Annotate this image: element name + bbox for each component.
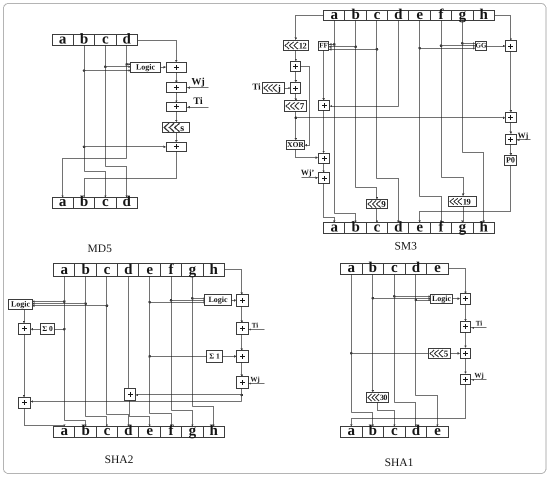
svg-text:e: e [416,7,423,23]
wire SM3 d into middle adder1 [331,106,399,108]
svg-text:b: b [81,262,89,278]
wire SM3 P0 output to new e [420,166,511,223]
svg-text:e: e [416,219,423,235]
wire SHA2 b vertical [85,277,87,417]
logic box SM3 FF(a,b,c) [319,42,329,51]
svg-text:e: e [146,262,153,278]
svg-text:g: g [459,219,467,235]
wire SHA2 e into right Logic [150,302,205,304]
wire SHA1 Ti input [471,327,487,329]
svg-text:Wj: Wj [250,375,259,383]
rotate box SM3 <<<j [263,83,285,94]
adder SHA2 left + (Maj+S0) [19,324,31,335]
wire MD5 c to new d [106,167,127,197]
svg-text:a: a [348,423,356,439]
wire SHA1 <<<5 to adder3 [451,353,460,355]
svg-text:b: b [351,219,359,235]
svg-text:GG: GG [476,42,487,50]
svg-text:MD5: MD5 [88,243,113,255]
svg-text:12: 12 [299,40,307,50]
wire SM3 left adder2 to <<<7 [295,94,297,101]
wire SHA1 c vertical [394,275,396,403]
wire SM3 Wj' input to middle adder3 [302,177,318,179]
svg-text:Logic: Logic [136,63,156,72]
svg-text:h: h [210,262,219,278]
wire MD5 d to new a [63,159,127,197]
wire SM3 right adder1 to adder2 [510,52,512,112]
svg-text:e: e [434,260,441,276]
wire SM3 a vertical [334,21,336,214]
wire SHA2 Sigma0 output to left adder [32,329,41,331]
adder SHA1 +2 (+Ti) [461,322,471,333]
register SHA2 top (a-h) [54,262,225,278]
logic box SM3 GG(e,f,g) [476,42,487,51]
svg-text:P0: P0 [506,156,515,165]
wire MD5 a-feed: top register right edge to adder chain [138,41,177,62]
svg-text:SM3: SM3 [395,241,418,253]
svg-text:19: 19 [463,196,471,206]
wire SM3 c to new d [377,179,399,223]
wire SHA1 Logic to adder1 [453,298,460,300]
wire SHA2 h-feed: register right edge to right adder chain [225,270,242,295]
rotate box SM3 <<<9 [367,199,388,209]
wire SHA2 f to new g [172,411,193,427]
wire SM3 <<<9 to new c [376,209,378,223]
svg-text:Ti: Ti [252,321,259,329]
wire SM3 XOR output to middle adder2 [296,150,318,158]
wire SM3 e to new f [420,197,442,223]
adder SHA2 middle + (d+T1) [125,389,136,401]
adder SM3 middle +2 (+SS2) [319,154,330,164]
svg-text:c: c [374,219,381,235]
wire SM3 b into FF [329,46,356,48]
wire SHA2 left Logic to adder T2a [24,310,26,323]
wire MD5 b into adder4 [85,146,166,148]
svg-text:FF: FF [319,42,328,50]
adder SM3 left +1 (A12+E) [291,62,301,72]
wire SHA2 T1 branch to middle adder (d+T1) [137,394,242,396]
wire SM3 d vertical [398,21,400,107]
adder SM3 middle +3 (+Wj') [319,173,330,184]
register SHA1 top (a-e) [341,260,449,276]
svg-text:b: b [80,32,88,48]
wire SHA1 a into <<<5 [352,353,429,355]
rotate box SHA1 <<<30 [367,393,389,403]
wire SHA2 T1 down from adder4 [241,389,243,402]
wire SM3 c vertical [376,21,378,179]
logic box SHA1 F(b,c,d) [431,294,453,303]
wire SHA2 g vertical [192,277,194,407]
logic box SHA2 Maj(a,b,c) [9,300,33,310]
wire SHA1 Wj input [471,379,487,381]
svg-text:Wj: Wj [191,77,204,88]
wire SHA2 b into left Logic [33,303,86,305]
svg-text:d: d [394,219,403,235]
wire SM3 GG output to right adder1 [487,46,505,48]
wire MD5 c vertical [105,46,107,167]
svg-text:Wj: Wj [474,372,483,380]
wire SHA1 a to new b [352,413,373,427]
wire SHA1 <<<30 to new c [378,403,395,427]
svg-text:c: c [374,7,381,23]
wire SM3 A-feed: register left edge to <<<12 [296,16,324,40]
rotate box SM3 <<<7 [285,101,307,112]
wire SHA1 temp to new a [352,385,466,427]
wire SM3 <<<19 to new g [463,207,465,223]
svg-text:b: b [351,7,359,23]
wire SM3 <<<12 to left adder1 [295,51,297,61]
wire MD5 d vertical [126,46,128,159]
svg-text:h: h [480,7,489,23]
svg-text:d: d [123,32,132,48]
adder MD5 + (+Ti) [167,103,187,112]
svg-text:d: d [394,7,403,23]
wire SHA1 adder1 to adder2 [465,305,467,321]
adder SM3 left +2 (+Tj<<<j) [291,83,301,94]
wire SHA2 right adder3 to adder4 [241,363,243,377]
svg-text:h: h [480,219,489,235]
wire SHA2 a into Sigma0 [55,329,65,331]
rotate box SM3 <<<19 [449,196,477,206]
svg-text:a: a [61,423,69,439]
wire SHA2 c into left Logic [33,305,107,307]
wire SHA2 a into left Logic [33,301,65,303]
wire SHA1 b into <<<30 rotate [372,390,375,392]
wire SM3 f vertical [441,21,443,178]
wire MD5 adder3 to rotate [176,112,178,122]
wire SHA2 g to new h [193,407,214,427]
wire SHA1 d to new e [416,396,438,427]
svg-text:Logic: Logic [208,295,228,304]
svg-text:a: a [59,32,67,48]
svg-text:a: a [61,262,69,278]
svg-text:e: e [146,423,153,439]
svg-text:g: g [189,262,197,278]
svg-text:Wj: Wj [518,131,529,140]
svg-text:c: c [102,32,109,48]
wire MD5 rotate to adder4 [176,133,178,142]
svg-text:d: d [124,262,133,278]
wire SHA1 d vertical [415,275,417,396]
wire SM3 FF output to middle adder1 [323,51,325,100]
wire SHA2 c to new d [107,415,129,427]
wire MD5 c into Logic [106,66,131,68]
adder MD5 + (+Wj) [167,83,187,93]
svg-text:Logic: Logic [432,294,452,303]
svg-text:b: b [80,194,88,210]
svg-text:g: g [189,423,197,439]
wire SM3 a into FF [329,44,335,46]
svg-text:d: d [412,423,421,439]
svg-text:h: h [210,423,219,439]
svg-text:Wj’: Wj’ [301,168,315,177]
wire SHA1 b into Logic [373,298,431,300]
wire SM3 right adder3 to P0 [510,145,512,155]
adder SHA1 +3 (+a<<<5) [461,349,471,359]
svg-text:a: a [331,219,339,235]
register SHA1 bottom (a-e) [341,423,449,439]
wire SHA1 adder3 to adder4 [465,359,467,374]
adder SHA2 right +3 (+Sigma1) [237,351,249,363]
svg-text:Ti: Ti [476,320,483,328]
wire SHA2 b to new c [86,417,107,427]
sigma box SHA2 Sigma1 [207,351,223,363]
svg-text:Logic: Logic [11,300,31,309]
svg-text:Σ 1: Σ 1 [209,351,220,360]
adder SHA2 right +1 (h+Ch) [237,295,249,307]
wire SM3 right adder2 to adder3 [510,123,512,134]
wire SM3 Wj input [517,139,531,141]
wire SM3 c into FF [329,49,377,51]
wire SHA2 right Logic to adder 1 [232,300,236,302]
function box SM3 P0 [505,156,517,166]
adder SHA2 right +4 (+Wj) [237,377,249,389]
adder SHA2 left + (T1+T2) [19,398,31,409]
wire SM3 a to new b [335,214,356,223]
wire MD5 d into Logic [127,64,131,66]
wire SHA2 e into Sigma1 [150,356,207,358]
wire MD5 b vertical [84,46,86,172]
wire SHA2 f into right Logic [172,300,205,302]
adder SM3 right +1 (h+GG) [506,41,517,52]
svg-text:Ti: Ti [252,82,261,92]
wire SHA1 d into Logic [416,300,431,302]
svg-text:g: g [459,7,467,23]
wire SHA2 f vertical [171,277,173,411]
wire SM3 e vertical [419,21,421,197]
wire MD5 Logic output to adder 1 [161,67,166,69]
svg-text:Ti: Ti [193,96,202,107]
wire SHA2 left adder down to adder T1+T2 [24,335,26,397]
sigma box SHA2 Sigma0 [41,324,55,335]
wire SM3 TT1 to new a [324,184,335,223]
wire SHA2 middle adder output to new e [130,401,150,427]
register MD5 bottom (a b c d) [53,194,138,210]
adder MD5 + (b+rot) [167,143,187,152]
logic box SHA2 Ch(e,f,g) [205,295,232,306]
wire SHA2 e to new f [150,414,172,427]
wire SM3 g to new h [463,153,484,223]
adder SM3 right +3 (+Wj) [506,135,517,145]
adder SM3 middle +1 (FF+d) [319,101,330,111]
svg-text:b: b [369,260,377,276]
rotate box MD5 <<<s [163,123,190,134]
svg-text:d: d [412,260,421,276]
wire SHA2 Sigma1 output to adder3 [223,356,236,358]
register MD5 top (a b c d) [53,32,138,48]
xor box SM3 XOR (SS2) [287,140,305,150]
wire SHA1 a vertical [351,275,353,413]
svg-text:Σ 0: Σ 0 [42,324,53,333]
wire SHA1 c into Logic [395,296,431,298]
svg-text:d: d [123,194,132,210]
svg-text:SHA2: SHA2 [105,454,134,466]
svg-text:b: b [81,423,89,439]
wire SHA1 e-feed: register right edge to adder chain [449,269,466,293]
register SHA2 bottom (a-h) [54,423,225,439]
adder SM3 right +2 (+SS1) [506,113,517,123]
rotate box SM3 <<<12 [284,40,309,50]
svg-text:c: c [104,262,111,278]
svg-text:a: a [348,260,356,276]
svg-text:c: c [391,423,398,439]
wire SM3 f into GG [442,45,475,47]
svg-text:XOR: XOR [287,140,304,149]
wire SHA1 c to new d [395,403,416,427]
svg-text:a: a [331,7,339,23]
svg-text:a: a [59,194,67,210]
wire SHA2 a vertical [64,277,66,421]
wire MD5 adder2 to adder3 [176,93,178,102]
wire SHA2 a to new b [65,421,86,427]
adder MD5 + (a+Logic) [167,63,187,73]
svg-text:j: j [277,83,281,93]
register SM3 top (a-h) [324,7,495,23]
svg-text:c: c [102,194,109,210]
wire MD5 b to new c [85,172,106,197]
svg-text:b: b [369,423,377,439]
wire MD5 adder1 to adder2 [176,73,178,83]
wire SM3 <<<7 output down to XOR [295,112,297,140]
wire SHA2 T1+T2 to new a [25,409,65,427]
wire SM3 middle adder2 to adder3 [323,164,325,172]
svg-text:e: e [434,423,441,439]
wire SHA2 Ti input [249,329,265,331]
svg-text:SHA1: SHA1 [385,457,414,469]
wire SM3 left adder1 to adder2 [295,72,297,82]
wire SM3 <<<j to left adder2 [285,88,290,90]
wire SM3 SS1: <<<7 output long line to right adder2 [296,117,505,119]
svg-text:c: c [391,260,398,276]
wire SHA2 T1 long line to left adder (T1+T2) [32,401,242,403]
wire SHA2 g into right Logic [193,298,205,300]
wire SM3 f to <<<19 [442,178,464,196]
wire SM3 left adder1 branch to XOR right side [301,67,310,146]
wire MD5 adder4 output to new b [85,152,177,197]
svg-text:s: s [180,123,184,134]
wire SHA1 adder2 to adder3 [465,333,467,348]
wire SM3 g into GG [463,43,475,45]
wire MD5 b into Logic [85,70,131,72]
wire SM3 g vertical [462,21,464,153]
register SM3 bottom (a-h) [324,219,495,235]
wire SHA2 right adder2 to adder3 [241,335,243,351]
adder SHA1 +1 (e+F) [461,294,471,305]
svg-text:30: 30 [380,393,388,402]
wire SM3 h-feed: register right edge to right adder chain [495,16,511,41]
wire SHA1 b vertical [372,275,374,392]
wire SHA2 e vertical [149,277,151,414]
wire MD5 Wj input [187,87,209,89]
wire SM3 b vertical [355,21,357,188]
wire SM3 middle adder1 to adder2 [323,111,325,153]
wire SM3 b to <<<9 [356,188,377,199]
wire SHA2 Wj input [249,383,265,385]
wire MD5 Ti input [187,107,209,109]
adder SHA1 +4 (+Wj) [461,375,471,385]
adder SHA2 right +2 (+Ti) [237,323,249,335]
wire SHA2 right adder1 to adder2 [241,307,243,323]
wire SHA2 d vertical [128,277,130,389]
svg-text:c: c [104,423,111,439]
svg-text:d: d [124,423,133,439]
rotate box SHA1 <<<5 [429,349,451,359]
wire SHA2 c vertical [106,277,108,415]
logic box MD5 F(b,c,d) [131,63,161,73]
wire SM3 e into GG [420,48,475,50]
